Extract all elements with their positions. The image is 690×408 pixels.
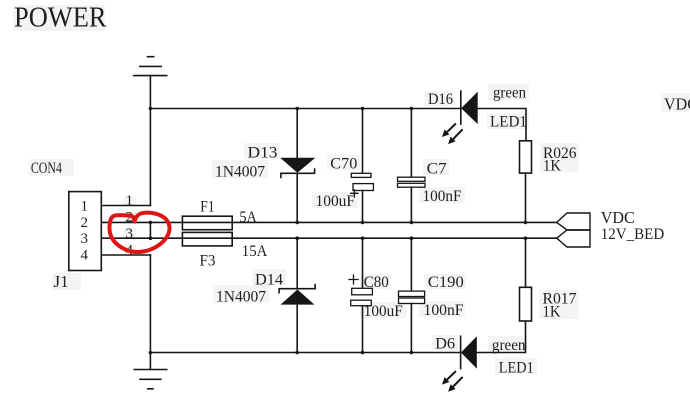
svg-text:3: 3 <box>126 226 134 242</box>
port flag 12V_BED <box>557 230 590 247</box>
svg-text:15A: 15A <box>242 243 268 260</box>
svg-text:1: 1 <box>126 193 134 209</box>
wire pin1 stub <box>101 205 150 207</box>
ground GND bottom <box>134 353 167 389</box>
node R026 junction <box>524 221 528 225</box>
svg-text:green: green <box>493 85 526 102</box>
node C7 top junction <box>410 107 414 111</box>
fuse F1 <box>182 216 232 230</box>
svg-text:C80: C80 <box>364 274 389 291</box>
svg-text:D6: D6 <box>435 336 455 353</box>
svg-text:D16: D16 <box>428 91 453 108</box>
svg-text:C190: C190 <box>428 274 464 291</box>
node bottom rail gnd junction <box>149 351 153 355</box>
node C70 top junction <box>361 107 365 111</box>
svg-text:F3: F3 <box>200 253 216 270</box>
connector J1 box <box>69 192 102 271</box>
svg-text:C70: C70 <box>330 155 357 172</box>
wire D6 to corner <box>477 321 526 353</box>
capacitor C80 100uF polarized <box>349 238 372 352</box>
node pin3 tie junction <box>149 236 153 240</box>
node pin2 tie junction <box>149 221 153 225</box>
resistor R026 <box>520 141 532 173</box>
svg-text:100nF: 100nF <box>423 188 462 205</box>
annotation red circle around pins 2-3 <box>109 213 169 252</box>
node D13 top junction <box>295 107 299 111</box>
svg-text:1K: 1K <box>543 304 561 321</box>
svg-text:green: green <box>492 337 526 354</box>
svg-text:POWER: POWER <box>14 2 107 34</box>
wire D16 to corner <box>478 109 526 141</box>
svg-text:LED1: LED1 <box>499 360 534 377</box>
wire pin2-pin3 vertical tie <box>149 222 151 238</box>
node C80 bottom junction <box>361 351 365 355</box>
svg-text:100uF: 100uF <box>316 193 356 210</box>
svg-text:4: 4 <box>81 248 89 264</box>
svg-text:12V_BED: 12V_BED <box>601 226 665 243</box>
svg-text:1N4007: 1N4007 <box>216 289 266 306</box>
node D13 bottom junction <box>295 221 299 225</box>
wire pin4 stub <box>101 254 150 256</box>
node R017 junction <box>524 236 528 240</box>
svg-text:1N4007: 1N4007 <box>215 164 265 181</box>
port flag VDC <box>557 213 590 230</box>
svg-text:2: 2 <box>81 215 89 231</box>
node C7 bottom junction <box>410 221 414 225</box>
svg-text:CON4: CON4 <box>31 160 62 177</box>
svg-text:5A: 5A <box>239 209 257 226</box>
svg-text:D14: D14 <box>255 272 283 289</box>
node C80 top junction <box>361 236 365 240</box>
svg-text:J1: J1 <box>54 272 69 291</box>
node C70 bottom junction <box>361 221 365 225</box>
svg-text:100nF: 100nF <box>424 302 464 319</box>
wire pin4 to bottom rail <box>149 255 151 353</box>
node C190 bottom junction <box>410 351 414 355</box>
wire R026 to top main wire <box>525 173 527 222</box>
diode D14 1N4007 <box>279 238 315 352</box>
node top-rail-gnd junction <box>149 107 153 111</box>
node D14 bottom junction <box>295 351 299 355</box>
wire bottom main y238.2 <box>101 237 556 239</box>
svg-text:VDC: VDC <box>664 95 690 114</box>
wire bottom rail y352.5 <box>150 352 460 354</box>
svg-text:LED1: LED1 <box>490 114 527 131</box>
wire vertical gnd-to-pin1 x150.5 <box>149 76 151 206</box>
diode D13 1N4007 <box>280 109 315 223</box>
LED D16 <box>442 91 478 144</box>
ground GND top <box>134 57 167 76</box>
svg-text:VDC: VDC <box>601 208 635 227</box>
wire top main y222.4 <box>101 221 556 223</box>
capacitor C7 100nF <box>398 109 426 223</box>
wire top rail y108.5 <box>150 108 460 110</box>
svg-text:1: 1 <box>81 199 89 215</box>
capacitor C190 100nF <box>399 238 425 352</box>
svg-text:3: 3 <box>81 231 89 247</box>
capacitor C70 100uF <box>351 109 374 223</box>
svg-text:D13: D13 <box>248 145 278 162</box>
svg-text:1K: 1K <box>543 158 561 175</box>
node D14 top junction <box>295 236 299 240</box>
wire R017 to bottom main wire <box>525 238 527 287</box>
svg-text:100uF: 100uF <box>364 303 403 320</box>
node C190 top junction <box>410 236 414 240</box>
LED D6 <box>442 336 477 392</box>
svg-text:F1: F1 <box>200 199 214 216</box>
fuse F3 <box>182 232 232 246</box>
svg-text:C7: C7 <box>427 160 447 177</box>
resistor R017 <box>520 287 532 321</box>
